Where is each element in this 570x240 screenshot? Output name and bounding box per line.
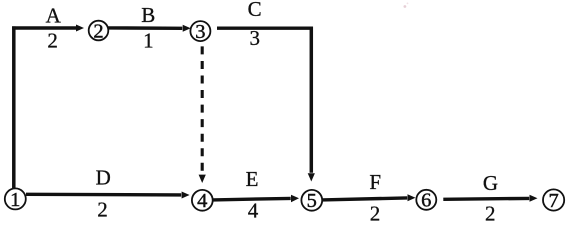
- value 2 (duration of D): [97, 197, 108, 221]
- arrow D: activity D from node 1 to node 4: [26, 192, 190, 199]
- svg-text:G: G: [483, 171, 498, 195]
- node 3: [190, 21, 210, 43]
- svg-text:2: 2: [47, 29, 58, 53]
- svg-text:7: 7: [548, 190, 558, 212]
- svg-text:D: D: [96, 166, 111, 190]
- svg-text:2: 2: [93, 20, 103, 42]
- svg-text:2: 2: [97, 197, 108, 221]
- arrow F: activity F from node 5 to node 6: [322, 194, 416, 201]
- node 2: [89, 20, 109, 42]
- label A: [46, 3, 62, 27]
- label C: [248, 0, 262, 21]
- node 6: [416, 190, 436, 212]
- svg-text:3: 3: [249, 26, 260, 50]
- svg-text:3: 3: [195, 21, 205, 43]
- svg-text:1: 1: [143, 28, 154, 52]
- node 4: [192, 190, 213, 212]
- label B: [141, 3, 155, 27]
- svg-text:B: B: [141, 3, 155, 27]
- value 4 (duration of E): [248, 199, 259, 223]
- wire: left vertical riser from node 1 to top-left corner: [12, 26, 16, 188]
- svg-text:2: 2: [370, 201, 381, 225]
- svg-text:F: F: [369, 170, 381, 194]
- value 3 (duration of C): [249, 26, 260, 50]
- svg-text:4: 4: [248, 199, 259, 223]
- svg-text:4: 4: [197, 190, 207, 212]
- arrow E: activity E from node 4 to node 5: [213, 195, 299, 203]
- svg-text:2: 2: [485, 201, 496, 225]
- svg-text:A: A: [46, 3, 62, 27]
- svg-text:E: E: [246, 167, 259, 191]
- label D: [96, 166, 111, 190]
- label E: [246, 167, 259, 191]
- node 5: [301, 190, 322, 212]
- value 2 (duration of F): [370, 201, 381, 225]
- value 2 (duration of A): [47, 29, 58, 53]
- value 2 (duration of G): [485, 201, 496, 225]
- value 1 (duration of B): [143, 28, 154, 52]
- svg-text:1: 1: [10, 189, 20, 211]
- dashed dummy arrow from node 3 down to node 4: [199, 46, 206, 183]
- node 1: [5, 188, 26, 210]
- scan speck (faint): [404, 3, 409, 8]
- arrow A: activity A from corner to node 2: [12, 25, 84, 32]
- arrow C: vertical drop into node 5: [308, 27, 315, 182]
- svg-text:C: C: [248, 0, 262, 21]
- label G: [483, 171, 498, 195]
- svg-text:6: 6: [421, 190, 431, 212]
- arrow B: activity B from node 2 to node 3: [109, 25, 191, 32]
- label F: [369, 170, 381, 194]
- svg-text:5: 5: [307, 190, 317, 212]
- arrow G: activity G from node 6 to node 7: [443, 195, 537, 202]
- wire: activity C horizontal run from node 3 to top-right corner: [217, 27, 313, 30]
- node 7: [543, 189, 564, 211]
